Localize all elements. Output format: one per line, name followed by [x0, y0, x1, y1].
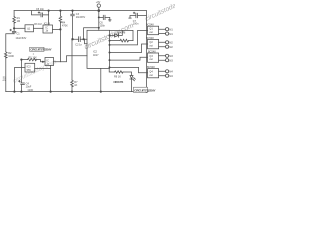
resistor R9 zigzag: [115, 71, 124, 73]
watermark circuitstoday.com diagonal: [12, 0, 193, 85]
lower vertical with R7: [71, 39, 73, 91]
svg-text:555: 555: [27, 69, 32, 72]
svg-text:BC548: BC548: [147, 66, 155, 69]
top rail: [14, 10, 146, 12]
cap plates: [103, 15, 105, 19]
driver feed wire 3: [110, 57, 148, 60]
tiny labels: [3, 1, 174, 92]
resistor R4 vertical from rail: [59, 11, 61, 30]
R8 loop wire: [110, 40, 134, 42]
resistor R2: [5, 52, 8, 58]
wire corner to far-left vertical: [6, 34, 14, 92]
box F: [45, 58, 54, 66]
box E input wire: [14, 68, 25, 92]
svg-text:R9 1K: R9 1K: [114, 75, 121, 78]
output stubs Q3: [159, 56, 166, 60]
right supply vertical: [145, 11, 147, 92]
cap plates right: [133, 12, 137, 18]
svg-text:1K: 1K: [74, 84, 77, 87]
main IC box: [87, 30, 110, 68]
IC top wire loop: [110, 30, 134, 40]
LED D2: [130, 76, 135, 81]
svg-text:BC548: BC548: [146, 24, 154, 27]
svg-text:BC548: BC548: [146, 37, 154, 40]
svg-text:M2: M2: [169, 46, 173, 49]
driver feed wire 2: [110, 44, 148, 53]
svg-text:100n: 100n: [100, 24, 106, 27]
terminal circles: [166, 28, 169, 31]
resistor R4 zigzag: [59, 16, 62, 22]
svg-text:M3: M3: [169, 59, 173, 62]
svg-text:10n/63V: 10n/63V: [76, 16, 86, 19]
wire node to gate input: [14, 27, 25, 29]
svg-text:M1: M1: [169, 33, 173, 36]
svg-text:out: out: [149, 31, 153, 34]
svg-text:out: out: [149, 58, 153, 61]
svg-text:+9V: +9V: [96, 1, 101, 4]
driver box Q3: [148, 53, 159, 62]
driver box Q2: [148, 39, 159, 48]
supply vertical: [98, 7, 100, 30]
svg-text:M4: M4: [169, 75, 173, 78]
resistor R8 zigzag: [120, 39, 129, 42]
output stubs Q4: [159, 71, 166, 75]
svg-text:GND: GND: [28, 89, 34, 92]
box F bottom vertical: [50, 66, 52, 92]
output stubs Q1: [159, 29, 166, 33]
capacitor C2 plates: [79, 37, 81, 42]
junction dots: [13, 9, 148, 93]
diode D1 wire: [110, 30, 123, 35]
resistor R5 zigzag: [28, 58, 37, 60]
svg-text:R3 1M: R3 1M: [34, 23, 41, 26]
ground tick right: [129, 17, 131, 19]
capacitor C5 plates: [38, 12, 42, 17]
svg-text:C5 10n: C5 10n: [36, 8, 45, 11]
svg-text:IC1:B: IC1:B: [44, 23, 51, 26]
svg-text:10uF/63V: 10uF/63V: [16, 37, 27, 40]
driver box Q4: [148, 69, 159, 78]
stub up from C2 node: [84, 28, 99, 40]
box E output wire: [35, 67, 51, 69]
R5 wire: [21, 60, 45, 62]
box E: [25, 63, 35, 72]
svg-text:100n: 100n: [133, 23, 139, 26]
driver feed wire 4: [110, 67, 148, 72]
capacitor C1: [10, 29, 16, 33]
R9 LED chain: [109, 68, 131, 91]
svg-text:M4: M4: [169, 71, 173, 74]
gate box IC1b: [43, 25, 53, 33]
C4 vertical: [20, 60, 22, 92]
diode D1: [115, 34, 119, 37]
wire IC pin to box F node: [60, 56, 87, 62]
timing cap vertical from rail: [72, 11, 74, 40]
capacitor C4 plates: [19, 80, 25, 84]
right cap branch: [130, 16, 146, 19]
ground tick: [109, 20, 112, 21]
driver box Q1: [148, 26, 159, 35]
wire gate output: [53, 28, 61, 30]
feedback vertical to box F: [54, 29, 61, 61]
svg-text:C2 1n: C2 1n: [75, 44, 82, 47]
output stubs Q2: [159, 42, 166, 46]
bottom rail: [6, 91, 148, 93]
capacitor C3 plates: [71, 14, 75, 16]
svg-text:CIRCUITSTODAY: CIRCUITSTODAY: [134, 88, 156, 92]
svg-text:M1: M1: [169, 28, 173, 31]
capacitor C5 branch stub: [32, 11, 49, 15]
svg-text:M3: M3: [169, 55, 173, 58]
svg-text:1N4148: 1N4148: [117, 32, 126, 35]
svg-text:CIRCUITSTODAY: CIRCUITSTODAY: [30, 48, 52, 52]
resistor R1: [13, 17, 16, 23]
svg-text:470K: 470K: [62, 24, 68, 27]
label block CIRCUITSTODAY bottom right: [134, 87, 157, 92]
svg-text:R5 10K: R5 10K: [29, 57, 38, 60]
wire between gates: [34, 27, 44, 29]
label block CIRCUITSTODAY middle: [30, 47, 53, 51]
gate power wire: [48, 11, 50, 25]
decoupling cap branch left: [99, 17, 110, 19]
svg-text:1M: 1M: [17, 20, 20, 23]
svg-text:M2: M2: [169, 42, 173, 45]
svg-text:out: out: [149, 74, 153, 77]
svg-text:CIRCUITS: CIRCUITS: [113, 81, 123, 84]
IC bottom ground wire: [100, 68, 102, 91]
svg-text:BC548: BC548: [148, 50, 156, 53]
wire C2 horizontal: [73, 38, 88, 40]
supply terminal circle: [97, 4, 100, 7]
gate box IC1a: [25, 25, 34, 32]
svg-text:4017: 4017: [93, 54, 99, 57]
svg-text:100K: 100K: [8, 55, 14, 58]
left vertical wire (top): [13, 11, 15, 34]
driver feed wire 1: [110, 31, 148, 45]
svg-text:out: out: [149, 45, 153, 48]
IC pin stub: [85, 39, 88, 44]
resistor R7 zigzag: [71, 80, 74, 87]
